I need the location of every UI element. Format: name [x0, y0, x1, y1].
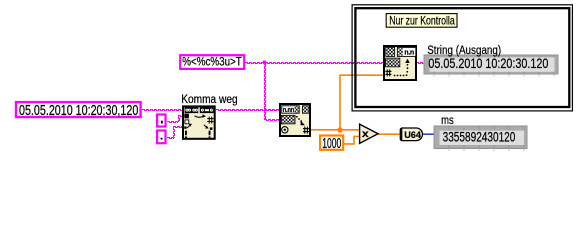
- svg-text:Komma weg: Komma weg: [181, 94, 238, 106]
- svg-text:05.05.2010 10:20:30,120: 05.05.2010 10:20:30,120: [19, 102, 138, 119]
- svg-text:1000: 1000: [322, 136, 341, 152]
- svg-text:n.n: n.n: [404, 50, 414, 57]
- svg-text:String (Ausgang): String (Ausgang): [427, 45, 501, 57]
- svg-text:05.05.2010 10:20:30.120: 05.05.2010 10:20:30.120: [428, 55, 548, 71]
- svg-text:Nur zur Kontrolla: Nur zur Kontrolla: [389, 13, 455, 27]
- svg-text:U64: U64: [404, 130, 421, 141]
- svg-text:n.nn: n.nn: [283, 107, 294, 114]
- svg-text:3355892430120: 3355892430120: [443, 128, 516, 144]
- svg-text:%<%c%3u>T: %<%c%3u>T: [182, 56, 242, 68]
- svg-text:ms: ms: [441, 115, 454, 127]
- svg-text:x: x: [362, 128, 369, 140]
